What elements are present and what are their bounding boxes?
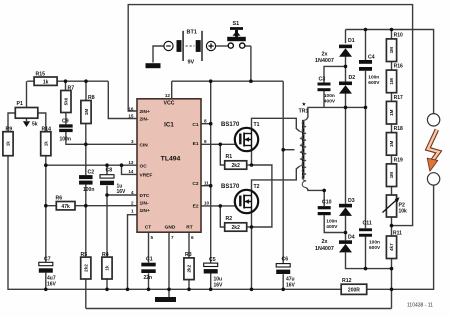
resistor R2 [225,223,247,231]
value R3 [187,264,192,272]
junction dots R15 node [64,79,88,83]
resistor R3 [184,258,194,280]
svg-text:D3: D3 [348,198,355,204]
svg-text:C9: C9 [62,118,69,124]
wire: R1 to T1 source [247,164,252,166]
label BS170 T1 [221,122,240,128]
value R8 [84,109,89,116]
wire: VCC pin12 stub [171,81,173,99]
wire: centre tap stub [283,149,294,151]
label R2 [226,216,233,222]
wire: R9 bottom to ground rail [8,156,341,290]
label D1 [348,38,355,44]
svg-text:R10: R10 [394,32,403,38]
svg-text:VCC: VCC [164,101,175,107]
wire: node A link to C3 [324,66,346,82]
wire: C5 bottom stub [210,273,212,289]
wire: VREF/OC net y=165.2 to pin 13 [46,164,137,166]
svg-text:2x: 2x [322,239,328,245]
svg-text:5k: 5k [32,122,38,128]
svg-text:13: 13 [128,160,134,165]
wire: R5 bottom to current-sense line [85,279,87,309]
wire: pin6 to R3 [188,232,190,258]
label C6 [282,256,289,262]
capacitor C9 [59,124,73,132]
wire: R8 bottom to pin3 line [85,124,87,145]
value C5 [214,276,224,288]
svg-text:DTC: DTC [140,193,150,199]
svg-text:2x: 2x [322,51,328,57]
label R16 [394,64,403,70]
figure number 110438-11 [407,303,433,309]
wire: +9V supply line y=81.2 [172,80,284,82]
output electrode top [427,114,439,126]
resistor R9 [3,132,13,156]
label C1 [146,257,153,263]
label R7 [68,85,75,91]
svg-text:R16: R16 [394,64,403,70]
value R14 [44,141,49,147]
svg-text:R11: R11 [393,230,402,236]
junction dots gates [219,143,223,208]
svg-text:C1: C1 [146,257,153,263]
transformer TR1 core [302,120,304,179]
svg-text:14: 14 [128,169,134,174]
svg-text:BS170: BS170 [221,184,240,190]
label R9 [6,127,13,133]
wire: R2 to T2 source [247,226,252,228]
value R9 [6,141,11,147]
wire: pin7 GND to rail [168,232,170,289]
junction dot DTC [105,193,109,197]
label D4 [348,235,355,241]
transistor T2 BS170 [235,190,258,213]
wire: ground stub below rail [168,289,170,297]
wire: P1 wiper vertical [26,81,28,121]
resistor R18 [386,133,396,156]
wire: electrode 1 to spark gap top [433,112,435,114]
svg-text:16V: 16V [47,281,57,287]
wire: C1 bottom stub [148,273,150,289]
label R10 [394,32,403,38]
label C5 [209,257,216,263]
svg-text:IC1: IC1 [164,122,174,129]
value 100n C2 [83,187,94,193]
wire: D4 anode down to electrode-2 net [346,252,392,268]
label R1 [226,154,233,160]
wire: R7 top stub [65,81,67,90]
diode D3 1N4007 [339,204,352,216]
svg-text:16V: 16V [214,282,224,288]
svg-text:10: 10 [204,201,210,206]
resistor R19 [386,164,396,187]
svg-text:R2: R2 [226,216,233,222]
wire: HV divider chain stubs [391,30,393,309]
spark / lightning bolt symbol [427,130,439,172]
svg-text:600V: 600V [369,245,381,251]
svg-text:1k: 1k [105,265,110,271]
svg-text:C7: C7 [44,256,51,262]
value 100n C9 [60,136,71,142]
svg-text:R6: R6 [56,196,63,202]
svg-text:2IN-: 2IN- [140,117,149,123]
label R12 [342,278,352,284]
label R8 [88,95,95,101]
value R18 [389,141,394,148]
svg-text:1k: 1k [43,79,49,85]
value 2k2 R1 [232,163,241,169]
junction dot rail right of R12 [390,288,394,292]
value C3 [324,93,336,104]
value R7 [64,97,69,105]
label R6 [56,196,63,202]
wire: pin5 to C1 [148,232,150,263]
svg-text:1M: 1M [389,78,394,85]
svg-text:4k7: 4k7 [389,243,394,251]
svg-text:S1: S1 [233,21,240,27]
svg-text:2: 2 [131,201,134,206]
wire: D2 anode down to D3 cathode [345,93,347,204]
junction dot node A [344,65,348,69]
svg-text:22n: 22n [144,275,153,281]
wire: T2 source to ground rail [251,213,253,289]
label T2 [254,184,260,190]
svg-text:6: 6 [191,235,194,240]
resistor R17 [386,101,396,124]
wire: battery minus to ground [153,46,164,63]
svg-text:E1: E1 [193,141,199,147]
junction dots electrode-2 net [364,267,394,271]
capacitor C1 [141,263,155,273]
svg-text:GND: GND [165,225,176,231]
wire: R14/C7 vertical (VREF node) [45,156,47,263]
svg-text:1: 1 [131,208,134,213]
label D3 [348,198,355,204]
svg-text:100n: 100n [324,93,335,99]
wire: 1IN+ pin 1 to ground rail [128,215,138,290]
wire: link to pin 14 VREF [122,165,138,174]
wire: E1 pin 9 to T1 gate [201,143,235,145]
value C10 [326,218,338,230]
value 1k R15 [43,79,49,85]
junction dots 1IN- line [44,204,88,208]
svg-text:1N4007: 1N4007 [315,58,334,64]
svg-text:R8: R8 [88,95,95,101]
resistor R7 [61,91,71,113]
wire: current sense feedback line y=308.5 [86,308,392,310]
svg-text:TR1: TR1 [299,109,309,115]
resistor R15 [34,77,57,85]
wire: DTC pin 4 line [107,194,137,196]
capacitor C7 electrolytic [39,262,53,272]
label R11 [393,230,402,236]
wire: C2 vertical from pin3 node [85,144,87,175]
junction dot R8/pin3 [84,143,88,147]
label 2x 1N4007 top [315,51,334,64]
label R15 [36,71,46,77]
wire: C11 bottom stub [365,235,367,269]
svg-text:C5: C5 [209,257,216,263]
svg-text:VREF: VREF [140,173,153,179]
value R19 [389,172,394,179]
label C7 [44,256,51,262]
capacitor C10 [318,206,331,215]
label BS170 T2 [221,184,240,190]
svg-text:C6: C6 [282,256,289,262]
svg-text:1k: 1k [6,141,11,147]
label C11 [363,221,372,227]
label R4 [102,252,109,258]
wire: battery plus to switch [216,45,229,47]
diode D4 1N4007 [339,240,352,252]
svg-text:9V: 9V [188,60,195,66]
label 2x 1N4007 bottom [315,239,334,252]
value C4 [368,74,380,86]
battery BT1 [164,31,216,61]
resistor R10 [386,39,396,62]
svg-text:100n: 100n [326,218,337,224]
svg-text:100n: 100n [60,136,71,142]
svg-text:T2: T2 [254,184,260,190]
svg-text:2IN+: 2IN+ [140,109,150,115]
wire: D3 anode to node C to D4 cathode [345,216,347,240]
value 47k R6 [61,204,70,210]
svg-text:TL494: TL494 [161,156,181,163]
svg-text:R9: R9 [6,127,13,133]
svg-text:R19: R19 [394,157,403,163]
svg-text:12: 12 [165,93,171,98]
svg-text:2k2: 2k2 [232,225,241,231]
junction dots VREF line [44,163,123,167]
wire: secondary bottom lead to C10 [306,188,324,191]
wire: switch to corner [245,45,251,47]
svg-text:100n: 100n [368,74,379,80]
capacitor C6 electrolytic [276,264,290,274]
svg-text:400V: 400V [326,224,338,230]
label R5 [81,252,88,258]
svg-text:5k6: 5k6 [64,97,69,105]
value 2k2 R2 [232,225,241,231]
wire: pin 8 stub [201,123,211,125]
transformer TR1 primary winding [300,132,304,167]
value 9V [188,60,195,66]
svg-text:R4: R4 [102,252,109,258]
value R10 [389,47,394,54]
label R18 [394,126,403,132]
wire: 1IN- pin 2 line [75,205,137,207]
capacitor C11 [359,228,372,236]
label C4 [368,54,375,60]
wire: C4 bottom to node B to C11 top [365,71,367,228]
svg-text:C2: C2 [192,181,198,187]
label R14 [42,127,52,133]
value R11 [389,243,394,251]
svg-text:D2: D2 [349,75,356,81]
svg-text:1M: 1M [389,141,394,148]
diode D1 1N4007 [339,45,352,57]
label BT1 [187,30,197,36]
svg-text:1M: 1M [84,109,89,116]
svg-text:1M: 1M [389,109,394,116]
svg-text:10k: 10k [399,209,408,215]
label C10 [322,199,332,205]
resistor R5 [81,257,91,279]
svg-text:R5: R5 [81,252,88,258]
capacitor C4 [359,60,372,71]
label T1 [254,122,260,128]
transformer TR1 secondary winding [302,120,306,188]
svg-text:15: 15 [128,113,134,118]
svg-text:16: 16 [128,107,134,112]
svg-text:9: 9 [204,139,207,144]
wire: T2 drain to primary bottom [252,166,300,190]
label S1 [233,21,240,27]
svg-text:5: 5 [151,235,154,240]
wire: C3 bottom to node B [323,91,325,107]
label D2 [349,75,356,81]
wire: +9V down to transformer centre tap and C6 [282,81,284,263]
label R17 [394,95,403,101]
wire: T1 drain to primary top [252,118,300,131]
resistor R4 [102,257,112,279]
svg-text:R14: R14 [42,127,52,133]
svg-text:C10: C10 [322,199,332,205]
svg-text:400V: 400V [324,98,336,104]
svg-text:R17: R17 [394,95,403,101]
wire: C2 bottom to 1IN- line [85,185,87,206]
pushbutton S1 [227,27,246,48]
potentiometer P2 [383,195,400,217]
svg-text:2k2: 2k2 [232,163,241,169]
wire: C7 bottom stub [45,273,47,290]
svg-text:R12: R12 [342,278,352,284]
svg-text:E2: E2 [193,204,199,210]
svg-text:600V: 600V [368,80,380,86]
wire: diode chain top [345,30,347,44]
wire: C1/C2 collector net vertical x=210.7 [210,81,212,263]
svg-text:RT: RT [186,225,192,231]
wire: R6 left stub [46,205,57,207]
wire: C10 top stub [323,190,325,206]
wire: C10 bottom to node C [324,215,345,232]
svg-text:CT: CT [145,225,151,231]
svg-text:3: 3 [131,139,134,144]
resistor R16 [386,70,396,93]
svg-text:1N4007: 1N4007 [315,246,334,252]
capacitor C2 [79,175,93,185]
transistor T1 BS170 [235,128,258,151]
capacitor C3 [318,83,331,92]
label P2 [399,203,405,209]
label C3 [319,77,326,83]
capacitor C8 electrolytic [100,175,114,185]
wire: C8 bottom to DTC node [106,186,108,195]
junction dot node C [344,231,348,235]
wire: T2 gate resistor branch [220,206,224,227]
svg-text:R1: R1 [226,154,233,160]
junction dot P2 bottom [390,224,394,228]
wire: R4 vertical [106,195,108,257]
label R3 [185,252,192,258]
junction dots HV top rail [364,28,394,32]
svg-text:C1: C1 [192,122,198,128]
wire: source link T1-T2 [252,165,272,227]
label C8 [106,168,113,174]
wire: E2 pin 10 to T2 gate [201,205,235,207]
resistor R12 [341,284,367,294]
wire: R7 to C9 [65,113,67,125]
wire: R8 top stub [85,81,87,100]
wire: P1 left terminal to R9 [8,113,15,132]
resistor R8 [81,101,91,124]
resistor R1 [225,161,247,169]
svg-text:R18: R18 [394,126,403,132]
label C2 [88,169,95,175]
svg-text:C11: C11 [363,221,372,227]
label C9 [62,118,69,124]
wire: T1 source down [251,151,253,165]
wire: switch to supply line [250,46,252,81]
svg-text:C4: C4 [368,54,375,60]
svg-text:R15: R15 [36,71,46,77]
junction dot C10 top [322,189,326,193]
value C8 [117,183,127,195]
junction dots on ground rail [44,288,285,292]
potentiometer P1 [15,108,38,128]
junction dot centre tap [281,148,285,152]
value R17 [389,109,394,116]
junction dots sources [250,163,254,229]
svg-text:R3: R3 [185,252,192,258]
svg-text:110438 - 11: 110438 - 11 [407,303,433,309]
junction dots node B [344,106,368,110]
svg-text:BS170: BS170 [221,122,240,128]
resistor R6 [56,202,75,210]
wire: R5 top stub [85,206,87,257]
svg-text:D4: D4 [348,235,355,241]
wire: D1 anode to node A to D2 cathode [345,55,347,81]
value C7 [47,275,57,287]
wire: pin 15 net from R15 node down to 2IN- [108,81,137,118]
svg-text:2k2: 2k2 [187,264,192,272]
wire: electrode 2 to ground rail right segment [367,185,434,289]
value C6 [286,276,296,288]
junction dots on +9V line [209,79,253,83]
svg-text:16V: 16V [286,282,296,288]
svg-text:R7: R7 [68,85,75,91]
svg-text:★: ★ [301,102,306,107]
svg-text:T1: T1 [254,122,260,128]
value 5k P1 [32,122,38,128]
wire: C9 bottom to pin 3 net [66,131,137,144]
svg-text:2k2: 2k2 [84,264,89,272]
svg-text:C3: C3 [319,77,326,83]
svg-text:1IN-: 1IN- [140,201,149,207]
svg-text:P1: P1 [17,101,23,107]
svg-text:D1: D1 [348,38,355,44]
wire: secondary top lead to node B [306,107,365,119]
svg-text:100n: 100n [369,239,380,245]
wire: C6 bottom stub [282,274,284,289]
capacitor C5 electrolytic [204,263,218,273]
value 200R [348,287,360,293]
svg-text:BT1: BT1 [187,30,197,36]
svg-text:16V: 16V [117,189,127,195]
wire: R15 node horizontal y=81.2 [27,80,108,82]
value R16 [389,78,394,85]
junction dots collector net [209,122,213,188]
label P1 [17,101,23,107]
